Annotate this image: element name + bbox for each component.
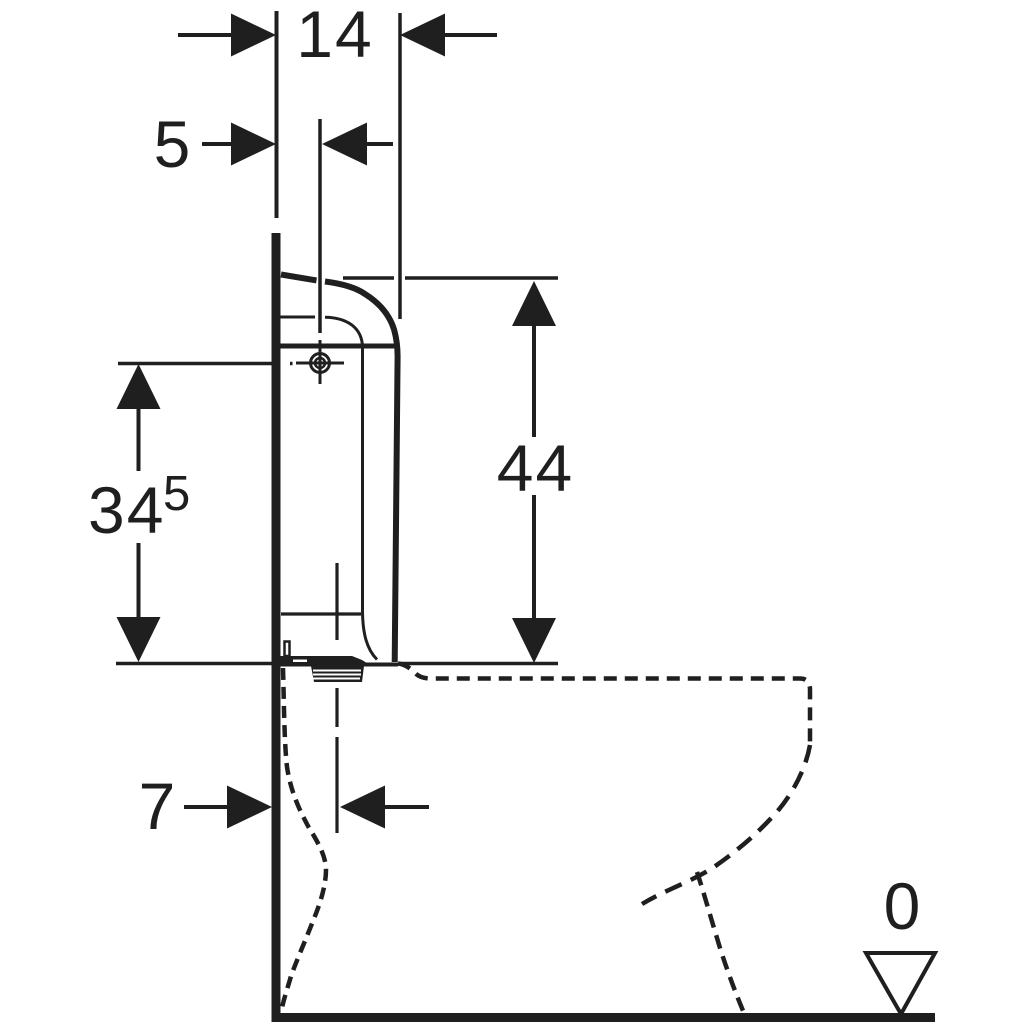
svg-text:5: 5 <box>154 107 191 181</box>
dimension 5: left arrowhead <box>231 123 276 166</box>
floor (thick horizontal) <box>272 1013 935 1022</box>
extension line: cistern top right segment <box>405 276 558 280</box>
bowl outline dashed: pedestal front <box>697 872 744 1013</box>
dimension 14: left arrowhead <box>231 14 276 57</box>
dimension 5: right leader line <box>366 142 393 146</box>
cistern lid seam line <box>279 344 397 349</box>
outlet rib 3 <box>313 678 360 680</box>
extension line: screw height (left of wall) <box>118 362 272 366</box>
outlet centerline below cistern: lower segment <box>335 737 338 833</box>
outlet centerline inside cistern (vertical) <box>335 563 338 640</box>
svg-text:14: 14 <box>296 0 373 71</box>
flush valve outlet (ribbed) <box>311 666 364 682</box>
outlet centerline below cistern: upper dash <box>335 688 338 727</box>
datum level triangle symbol <box>866 953 935 1014</box>
outlet rib 2 <box>313 674 361 676</box>
svg-text:7: 7 <box>139 769 176 843</box>
bowl outline dashed: back profile along wall <box>282 668 326 1008</box>
dimension 34.5: upper line <box>137 385 141 471</box>
screw crosshair vertical <box>319 340 322 384</box>
water supply screw symbol: inner circle <box>315 358 325 368</box>
extension line: cistern bottom left <box>116 662 272 666</box>
svg-text:0: 0 <box>884 869 921 943</box>
svg-text:5: 5 <box>163 467 190 521</box>
extension line: wall face (thin, above wall) <box>275 11 279 218</box>
dimension 14: right leader line <box>444 33 497 37</box>
cistern bottom band <box>278 656 398 667</box>
dimension 7: right leader line <box>385 805 429 809</box>
cistern bottom band slit <box>293 660 307 663</box>
water supply screw symbol: outer circle <box>311 354 330 373</box>
extension line: screw height short dash right of wall <box>290 362 293 366</box>
dimension 14: left leader line <box>178 33 233 37</box>
dimension 7: right arrowhead <box>340 786 385 829</box>
dimension 5: left leader line <box>202 142 232 146</box>
cistern inner front edge <box>363 347 378 660</box>
wall fixing bracket <box>285 642 290 657</box>
valve level line across cistern <box>281 612 361 615</box>
extension line: cistern bottom right <box>400 662 558 666</box>
dimension 44: bottom arrowhead <box>512 618 556 663</box>
outlet rib 1 <box>313 670 361 672</box>
svg-text:34: 34 <box>88 473 165 547</box>
extension line: screw centerline vertical <box>318 119 322 333</box>
screw crosshair horizontal <box>296 362 344 365</box>
dimension 7: left arrowhead <box>227 786 272 829</box>
dimension 14: right arrowhead <box>400 14 445 57</box>
cistern lid inner edge <box>279 317 363 347</box>
bowl outline dashed: top and right corner <box>398 664 810 746</box>
dimension 7: left leader line <box>184 805 227 809</box>
extension line: cistern front face vertical <box>398 13 402 319</box>
dimension 5: right arrowhead <box>322 123 367 166</box>
svg-text:44: 44 <box>497 431 574 505</box>
dimension 44: lower line <box>532 495 536 640</box>
cistern outer profile (lid top and front face) <box>281 275 398 663</box>
bowl outline dashed: rear S-curve <box>642 745 810 904</box>
dimension 34.5: lower line <box>137 543 141 640</box>
dimension 44: upper line <box>532 300 536 437</box>
extension line: cistern top left segment <box>343 276 394 280</box>
dimension 34.5: bottom arrowhead <box>117 617 161 662</box>
dimension 44: top arrowhead <box>512 281 556 326</box>
dimension 34.5: top arrowhead <box>117 364 161 409</box>
wall (thick vertical) <box>272 233 281 1022</box>
